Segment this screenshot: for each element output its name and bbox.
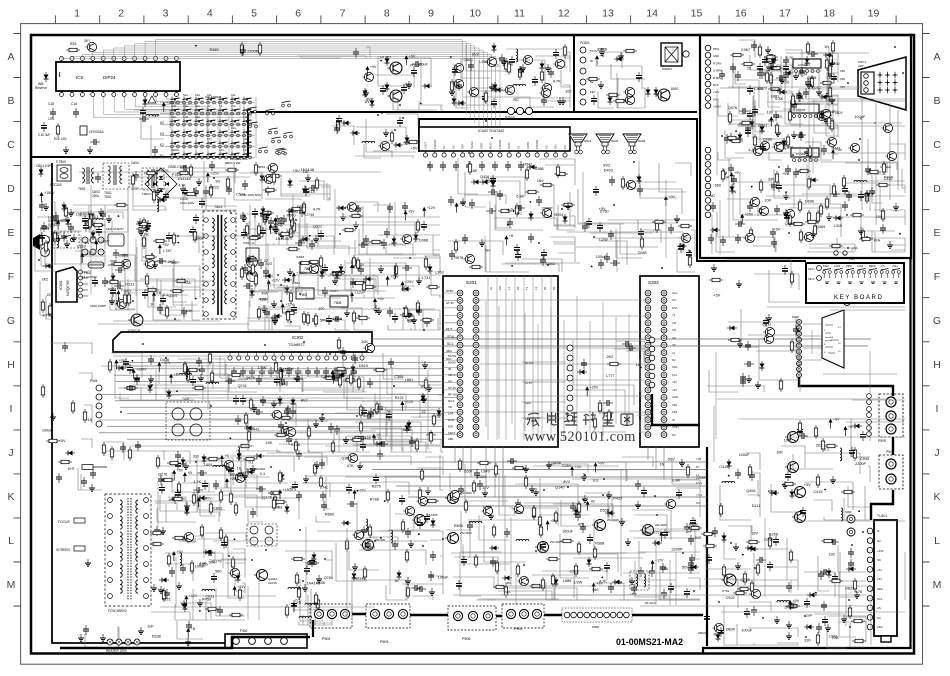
- capacitor C1222: [409, 437, 415, 447]
- svg-text:+5V: +5V: [713, 294, 720, 298]
- svg-text:L: L: [8, 535, 14, 547]
- wire: [50, 343, 92, 448]
- resistor R1026: [172, 232, 175, 246]
- diode D10113: [62, 202, 67, 212]
- svg-text:NC: NC: [877, 558, 881, 562]
- ground: [533, 488, 539, 495]
- resistor R17075: [725, 136, 739, 139]
- ground: [629, 577, 635, 584]
- supply arrow: [769, 115, 783, 126]
- capacitor C21512: [180, 165, 190, 171]
- resistor R17110: [813, 223, 816, 237]
- capacitor C803: [95, 173, 101, 183]
- resistor R14013: [554, 172, 568, 175]
- resistor R18168: [593, 546, 596, 560]
- ground: [560, 97, 566, 104]
- resistor R18116: [577, 541, 580, 555]
- ground: [823, 116, 829, 123]
- svg-text:100uF: 100uF: [562, 530, 573, 534]
- ground: [422, 361, 428, 368]
- transformer T803 (SMPS): [203, 211, 236, 319]
- svg-text:Y1: Y1: [672, 313, 676, 317]
- diode D1034: [261, 206, 266, 216]
- node: [195, 45, 197, 47]
- svg-text:H: H: [933, 359, 941, 371]
- svg-text:KE1T: KE1T: [448, 431, 456, 435]
- capacitor C15010: [468, 61, 474, 71]
- diode D18159: [587, 557, 592, 567]
- ground: [545, 64, 551, 71]
- resistor R20024: [733, 591, 747, 594]
- resistor R10435: [416, 219, 419, 233]
- svg-text:17: 17: [779, 8, 791, 20]
- svg-text:0.1: 0.1: [93, 215, 98, 219]
- svg-text:T4: T4: [219, 104, 223, 108]
- capacitor C17057: [821, 145, 827, 155]
- svg-text:KEY1: KEY1: [448, 373, 456, 377]
- diode D11010: [428, 264, 433, 274]
- svg-text:560: 560: [768, 119, 774, 123]
- diode D2108: [350, 131, 360, 136]
- diode D19012: [727, 326, 737, 331]
- capacitor C1913: [797, 426, 803, 436]
- svg-text:1/2W: 1/2W: [599, 238, 608, 242]
- resistor R20017: [743, 571, 746, 585]
- svg-text:C288: C288: [570, 569, 579, 573]
- capacitor C16013: [636, 72, 642, 82]
- resistor R10811: [111, 262, 125, 265]
- wire: [102, 442, 164, 460]
- svg-text:Q297: Q297: [168, 294, 177, 298]
- resistor R12114: [349, 372, 352, 386]
- capacitor C1905: [740, 373, 746, 383]
- resistor R17182: [829, 244, 843, 247]
- svg-text:SCL: SCL: [447, 342, 454, 346]
- svg-text:+12V: +12V: [427, 206, 436, 210]
- resistor R17128: [807, 176, 810, 190]
- right block inner border: [703, 258, 911, 654]
- svg-text:7808: 7808: [334, 301, 342, 305]
- svg-text:2SC945: 2SC945: [375, 538, 386, 542]
- supply arrow: [570, 465, 582, 476]
- resistor R20014: [789, 549, 792, 563]
- resistor R10240: [145, 273, 148, 287]
- svg-text:13: 13: [602, 8, 614, 20]
- svg-text:KC503: KC503: [796, 152, 806, 156]
- diode D20129: [827, 568, 832, 578]
- supply arrow: [274, 216, 286, 227]
- diode D1067: [250, 288, 255, 298]
- resistor R18136: [477, 461, 491, 464]
- capacitor C17156: [846, 191, 852, 201]
- supply arrow: [586, 500, 596, 511]
- resistor R13056: [156, 455, 159, 469]
- svg-text:CH+: CH+: [881, 265, 886, 268]
- wire: [35, 202, 55, 271]
- resistor R13074: [272, 497, 275, 511]
- svg-text:IC848: IC848: [296, 255, 304, 259]
- resistor R1206: [186, 368, 200, 371]
- diode D17171: [710, 228, 720, 233]
- capacitor C17118: [708, 234, 714, 244]
- svg-text:01-00MS21-MA2: 01-00MS21-MA2: [616, 637, 683, 647]
- resistor R18132: [589, 567, 603, 570]
- diode D2114: [91, 230, 96, 240]
- resistor R1107: [426, 285, 440, 288]
- resistor R10610: [286, 309, 289, 323]
- capacitor C17163: [842, 185, 848, 195]
- speaker 3: [623, 134, 641, 151]
- diode D19016: [760, 361, 765, 371]
- resistor R1054: [306, 312, 309, 326]
- resistor R11014: [330, 272, 344, 275]
- supply arrow: [331, 369, 345, 380]
- svg-text:4.7K: 4.7K: [748, 148, 756, 152]
- CRT socket CRY1: [858, 57, 906, 110]
- transistor Q1101: [307, 264, 318, 273]
- ground: [893, 203, 899, 210]
- ground: [88, 210, 94, 217]
- transformer T802 dashed: [103, 163, 129, 189]
- capacitor C1088: [110, 287, 116, 297]
- wire: [704, 525, 798, 645]
- resistor R10223: [170, 289, 184, 292]
- capacitor C18022: [347, 501, 357, 507]
- resistor R181102: [492, 524, 495, 538]
- capacitor C18153: [490, 557, 496, 567]
- capacitor C12021: [199, 365, 205, 375]
- svg-text:ABL: ABL: [448, 437, 454, 441]
- transistor Q1500: [539, 88, 550, 97]
- capacitor C10417: [381, 239, 387, 249]
- ground: [71, 234, 77, 241]
- svg-text:C860: C860: [784, 145, 793, 149]
- ground: [160, 527, 166, 534]
- svg-text:SDA: SDA: [525, 401, 531, 405]
- svg-text:+5V: +5V: [672, 380, 677, 384]
- wire: [111, 353, 228, 400]
- supply arrow: [162, 101, 178, 112]
- node: [584, 474, 586, 476]
- resistor R2156: [144, 171, 158, 174]
- capacitor C13221: [304, 565, 310, 575]
- capacitor C18124: [608, 583, 614, 593]
- svg-text:+5V: +5V: [833, 418, 840, 422]
- capacitor C1215: [274, 376, 280, 386]
- svg-text:A: A: [7, 51, 14, 63]
- ground: [155, 187, 161, 194]
- ground: [241, 214, 247, 221]
- svg-text:S201: S201: [466, 280, 477, 285]
- ground: [449, 88, 455, 95]
- ground: [557, 97, 563, 104]
- diode D12219: [405, 423, 410, 433]
- svg-text:J: J: [8, 447, 13, 459]
- ground: [68, 209, 74, 216]
- diode D18019: [341, 521, 351, 526]
- resistor R1231: [102, 442, 105, 456]
- ground: [765, 46, 771, 53]
- diode D13058: [185, 506, 190, 516]
- resistor R18178: [458, 458, 461, 472]
- capacitor C17131: [776, 182, 782, 192]
- capacitor C12113: [256, 375, 262, 385]
- capacitor C12024: [127, 364, 133, 374]
- IR receiver WR001: [661, 43, 682, 66]
- supply arrow: [184, 594, 198, 605]
- capacitor C1308: [321, 501, 327, 511]
- opto IC804: [246, 248, 259, 261]
- transistor QV3: [592, 519, 605, 530]
- supply arrow: [292, 271, 308, 282]
- svg-text:8V2: 8V2: [472, 52, 479, 56]
- resistor R11033: [319, 255, 322, 269]
- capacitor C2014: [822, 616, 828, 626]
- svg-text:PTC200: PTC200: [50, 183, 62, 187]
- svg-text:8V2: 8V2: [265, 262, 272, 266]
- svg-text:L980: L980: [479, 60, 487, 64]
- node: [309, 235, 311, 237]
- capacitor C12020: [134, 375, 140, 385]
- ground: [887, 241, 893, 248]
- resistor R1715: [865, 190, 868, 204]
- transistor QC004: [623, 95, 634, 104]
- capacitor C20045: [767, 561, 773, 571]
- svg-text:GND: GND: [852, 247, 858, 250]
- svg-text:C697: C697: [464, 470, 473, 474]
- diode D13121: [159, 578, 169, 583]
- diode D14025: [563, 214, 568, 224]
- transistor Q I000: [655, 89, 670, 101]
- svg-text:22: 22: [47, 293, 51, 297]
- svg-text:+25V: +25V: [590, 385, 599, 389]
- transistor Q1516: [362, 72, 373, 81]
- capacitor C1809: [377, 450, 383, 460]
- connector P9001 column: [649, 337, 655, 343]
- wire: [336, 455, 443, 600]
- svg-text:J: J: [934, 447, 939, 459]
- resistor R2238: [172, 536, 186, 539]
- svg-text:8V2: 8V2: [603, 164, 610, 168]
- svg-text:L849: L849: [481, 469, 489, 473]
- svg-text:+180V: +180V: [121, 289, 132, 293]
- bus lines S-block to video border: [360, 461, 707, 463]
- capacitor C14113: [598, 259, 604, 269]
- resistor R1321: [297, 586, 300, 600]
- capacitor C181134: [660, 563, 666, 573]
- svg-text:+5V: +5V: [877, 568, 882, 572]
- svg-text:K902: K902: [835, 265, 841, 268]
- resistor R18189: [560, 539, 574, 542]
- resistor R13047: [234, 502, 237, 516]
- supply arrow: [422, 206, 436, 217]
- wire: [247, 291, 300, 330]
- IC IC302 TDA8677: [113, 332, 372, 352]
- resistor R19120: [853, 447, 856, 461]
- transistor Q13123: [228, 568, 239, 577]
- resistor R2217: [41, 384, 44, 398]
- capacitor C1903: [763, 317, 769, 327]
- resistor R18176: [538, 514, 541, 528]
- svg-text:+5V: +5V: [59, 439, 66, 443]
- capacitor C15113: [401, 84, 407, 94]
- wire: [45, 219, 105, 264]
- capacitor C2153: [199, 198, 205, 208]
- transistor QR1: [785, 461, 798, 472]
- capacitor C14215: [528, 233, 534, 243]
- resistor R1105: [362, 285, 376, 288]
- supply arrow: [594, 461, 606, 472]
- wire: [151, 549, 245, 620]
- svg-text:NC: NC: [513, 98, 519, 102]
- svg-text:Q705: Q705: [740, 578, 749, 582]
- ground: [353, 221, 359, 228]
- svg-text:IC302: IC302: [292, 335, 304, 340]
- svg-text:11: 11: [514, 8, 525, 20]
- ground: [733, 543, 739, 550]
- extra keys: [272, 137, 281, 143]
- transistor Q18174: [512, 504, 523, 513]
- capacitor C2112: [68, 223, 74, 233]
- capacitor C809: [203, 187, 209, 197]
- svg-text:C891: C891: [213, 506, 222, 510]
- key switch SW3: [846, 269, 855, 279]
- svg-text:330: 330: [193, 455, 199, 459]
- svg-text:CALENDER: CALENDER: [205, 95, 222, 99]
- ground: [793, 72, 799, 79]
- diode D13073: [202, 454, 207, 464]
- diode D15032: [456, 101, 466, 106]
- resistor R18024: [386, 489, 389, 503]
- svg-text:C18: C18: [48, 102, 54, 106]
- capacitor C17150: [793, 168, 799, 178]
- resistor R18039: [406, 585, 409, 599]
- supply arrow: [664, 195, 676, 206]
- svg-text:HFB: HFB: [448, 418, 454, 422]
- resistor R10110: [64, 205, 67, 219]
- transistor Q14121: [679, 233, 690, 242]
- diode D1331: [65, 451, 75, 456]
- transistor QR0: [785, 431, 798, 442]
- diode D2133: [143, 97, 148, 107]
- resistor R12026: [210, 370, 213, 384]
- supply arrow: [114, 358, 126, 369]
- capacitor C20130: [820, 569, 830, 575]
- ground: [746, 375, 752, 382]
- node: [230, 437, 232, 439]
- resistor R181104: [686, 464, 689, 478]
- transistor Q2208: [885, 151, 896, 160]
- capacitor C20123: [848, 559, 854, 569]
- capacitor C10322: [241, 229, 247, 239]
- svg-text:F: F: [934, 271, 940, 283]
- resistor R13063: [171, 497, 185, 500]
- svg-text:8V2: 8V2: [301, 399, 308, 403]
- svg-text:3: 3: [163, 8, 169, 20]
- svg-text:+12V: +12V: [285, 302, 294, 306]
- supply arrow +12V: [350, 291, 364, 302]
- capacitor C12232: [361, 407, 367, 417]
- resistor R1046: [302, 201, 305, 215]
- capacitor C13036: [193, 487, 203, 493]
- capacitor C14024: [515, 205, 525, 211]
- resistor R2100: [406, 140, 420, 143]
- node: [234, 538, 236, 540]
- resistor R13220: [285, 604, 288, 618]
- ground: [515, 499, 521, 506]
- ground: [109, 297, 115, 304]
- supply arrow: [659, 531, 671, 542]
- connector P903: [366, 604, 410, 628]
- capacitor C17173: [864, 190, 870, 200]
- svg-text:KEY BOARD: KEY BOARD: [834, 294, 884, 301]
- svg-text:LOUT: LOUT: [424, 142, 428, 149]
- capacitor C18017: [405, 528, 411, 538]
- resistor R14029: [468, 161, 471, 175]
- ground: [405, 577, 411, 584]
- svg-text:KC502: KC502: [796, 108, 806, 112]
- resistor R1021: [136, 227, 150, 230]
- capacitor C20030: [786, 582, 792, 592]
- svg-text:SCL: SCL: [446, 357, 452, 361]
- transistor QA5: [540, 83, 551, 92]
- ground: [376, 307, 382, 314]
- capacitor C2192: [760, 143, 766, 153]
- capacitor C13019: [250, 508, 256, 518]
- svg-text:NC: NC: [485, 249, 491, 253]
- svg-text:C: C: [7, 139, 15, 151]
- resistor R181103: [504, 584, 507, 598]
- resistor R12263: [274, 433, 288, 436]
- ground: [261, 305, 267, 312]
- svg-text:1N4148: 1N4148: [357, 436, 370, 440]
- svg-text:C16 0uF: C16 0uF: [38, 133, 50, 137]
- ground: [89, 484, 95, 491]
- resistor R17119: [791, 222, 805, 225]
- capacitor C14125: [678, 243, 684, 253]
- resistor R19112: [816, 474, 819, 488]
- svg-text:L769: L769: [483, 505, 491, 509]
- svg-text:R2: R2: [672, 358, 676, 362]
- svg-text:R821: R821: [297, 205, 306, 209]
- svg-text:C?01: C?01: [722, 589, 730, 593]
- svg-text:1N: 1N: [364, 100, 369, 104]
- transistor Q10812: [115, 299, 126, 308]
- transistor Q14131: [624, 180, 635, 189]
- capacitor C12025: [196, 357, 202, 367]
- connector P905: [502, 604, 544, 628]
- resistor R2223: [44, 240, 47, 254]
- resistor R12213: [247, 429, 250, 443]
- capacitor C19122: [800, 507, 806, 517]
- matrix row/col wires: [160, 97, 256, 158]
- capacitor C17078: [783, 63, 789, 73]
- diode D17092: [783, 71, 793, 76]
- IC KC503: [791, 148, 819, 157]
- transistor Q18130: [448, 490, 459, 499]
- svg-text:220u: 220u: [92, 194, 99, 198]
- ground: [546, 461, 552, 468]
- ground: [829, 96, 835, 103]
- resistor R13018: [313, 462, 316, 476]
- resistor R17071: [753, 134, 756, 148]
- svg-text:19: 19: [868, 8, 880, 20]
- transistor QA6: [553, 59, 564, 68]
- svg-text:IR: IR: [672, 418, 675, 422]
- ground: [332, 277, 338, 284]
- resistor R11023: [352, 281, 366, 284]
- resistor R18141: [546, 557, 560, 560]
